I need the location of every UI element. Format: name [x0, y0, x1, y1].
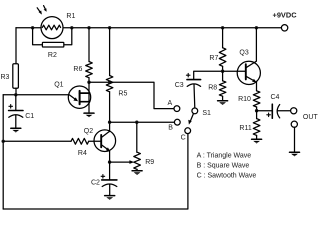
capacitor C3 top plate	[187, 79, 201, 81]
node junction left rail R4	[2, 140, 5, 143]
legend line B	[197, 162, 250, 169]
svg-text:C3: C3	[175, 82, 184, 89]
capacitor C4 curved plate	[277, 105, 280, 118]
capacitor C1 top plate	[9, 110, 23, 112]
svg-text:R3: R3	[1, 74, 10, 81]
label R9	[145, 159, 154, 166]
wire left vertical rail	[2, 95, 4, 209]
ground below C1	[11, 128, 21, 132]
label +9VDC	[273, 11, 298, 20]
wire bottom rail	[3, 134, 188, 209]
switch S1 arm arrow to C	[188, 114, 193, 125]
node junction top rail at R5	[108, 26, 111, 29]
wiper arrow of R9	[110, 160, 135, 164]
ground below R9	[132, 171, 142, 175]
svg-text:C4: C4	[271, 94, 280, 101]
wire C3 to S1 pole	[193, 84, 196, 108]
wire R8 top lead	[222, 71, 224, 81]
wire node B net	[110, 121, 175, 123]
capacitor C1 plus sign	[9, 105, 13, 109]
label node B	[168, 125, 173, 132]
wire R11 bottom lead	[256, 135, 258, 139]
wire Q1 gate net	[3, 94, 71, 96]
wire R2 left branch	[33, 28, 43, 45]
label R3	[1, 74, 10, 81]
resistor R10	[253, 91, 260, 107]
transistor Q3 emitter	[246, 76, 257, 82]
wire R6 top lead	[88, 28, 90, 62]
capacitor C1 bottom lead	[15, 115, 17, 128]
capacitor C3 curved plate	[187, 84, 200, 87]
svg-text:B : Square Wave: B : Square Wave	[197, 162, 250, 169]
node junction tap on R5	[108, 81, 111, 84]
ground below C2	[105, 196, 115, 200]
wire R10 bottom lead	[256, 107, 258, 111]
capacitor C2 curved plate	[102, 184, 117, 187]
svg-text:Q3: Q3	[239, 50, 248, 57]
label R7	[209, 55, 218, 62]
svg-text:R8: R8	[208, 84, 217, 91]
resistor R4	[71, 138, 89, 144]
label R2	[48, 52, 57, 59]
label R6	[73, 66, 82, 73]
wire Q3 emitter lead	[256, 81, 258, 90]
svg-text:B: B	[168, 125, 173, 132]
node junction top rail at R2 left	[31, 26, 34, 29]
node junction R6 Q1 drain	[87, 81, 90, 84]
transistor Q2 body	[94, 130, 116, 152]
wire R4 left	[3, 140, 71, 142]
svg-text:R11: R11	[239, 125, 251, 132]
svg-text:R1: R1	[66, 13, 75, 20]
wire R11 top lead	[256, 111, 258, 119]
wire R3 bottom lead	[15, 88, 17, 95]
transistor Q2 emitter	[101, 145, 110, 152]
capacitor C2 top plate	[102, 179, 117, 181]
label R1	[66, 13, 75, 20]
label Q3	[239, 50, 248, 57]
light arrow 2 into R1	[44, 6, 47, 12]
wire Q1 drain-source vertical	[88, 82, 90, 113]
resistor R6	[86, 62, 93, 78]
transistor Q3 collector	[246, 28, 257, 68]
switch throw contact A	[174, 106, 180, 112]
label C1	[25, 113, 34, 120]
transistor Q1 channel bar	[79, 91, 81, 104]
svg-text:OUT: OUT	[303, 114, 319, 121]
label C2	[91, 180, 100, 187]
svg-text:Q1: Q1	[54, 81, 63, 88]
ground below OUT return	[290, 152, 300, 156]
switch S1 pole contact	[192, 108, 198, 114]
svg-text:Q2: Q2	[84, 128, 93, 135]
label C4	[271, 94, 280, 101]
capacitor C3 plus sign	[186, 73, 190, 77]
node junction R7 R8 Q3 base	[221, 70, 224, 73]
wire R7 top lead	[222, 28, 224, 48]
label S1	[202, 110, 211, 117]
label R5	[118, 91, 127, 98]
light arrow 1 into R1	[37, 8, 42, 15]
wire Q2 emitter lead	[109, 151, 111, 162]
transistor Q2 collector	[101, 131, 109, 137]
node junction R9 top	[135, 121, 138, 124]
legend line C	[197, 173, 257, 180]
svg-text:R9: R9	[145, 159, 154, 166]
resistor R11	[253, 119, 260, 136]
wire node A net	[89, 82, 174, 108]
photoresistor R1	[41, 17, 63, 39]
label OUT	[303, 114, 319, 121]
wire R7 bottom lead	[222, 66, 224, 71]
resistor R3	[13, 64, 19, 88]
terminal OUT return	[291, 121, 297, 127]
node junction top rail at R6	[87, 26, 90, 29]
svg-text:R2: R2	[48, 52, 57, 59]
terminal OUT signal	[291, 108, 297, 114]
svg-text:A : Triangle Wave: A : Triangle Wave	[197, 152, 252, 159]
svg-text:A: A	[168, 100, 173, 107]
legend line A	[197, 152, 252, 159]
resistor R9	[134, 152, 141, 169]
svg-text:C2: C2	[91, 180, 100, 187]
ground below R11	[252, 139, 262, 143]
label R10	[238, 96, 251, 103]
transistor Q1 source stub	[80, 101, 89, 103]
capacitor C2 bottom lead	[109, 184, 111, 195]
wire R9 top lead	[136, 122, 138, 152]
ground below Q1	[84, 113, 94, 117]
wire C3 to R8 junction	[194, 71, 223, 79]
wire R5 bottom lead	[109, 92, 111, 132]
transistor Q1 drain stub	[80, 92, 89, 94]
resistor R5	[106, 76, 113, 92]
node junction R3 C1 gate	[14, 93, 17, 96]
label node A	[168, 100, 173, 107]
label Q2	[84, 128, 93, 135]
wire R9 bottom lead	[136, 169, 138, 170]
wire R5 top lead	[109, 28, 111, 76]
wire Q3 base	[223, 70, 246, 72]
svg-text:R6: R6	[73, 66, 82, 73]
svg-text:C : Sawtooth Wave: C : Sawtooth Wave	[197, 173, 257, 180]
wire C4 to OUT	[278, 110, 291, 112]
wire R6 bottom lead	[88, 78, 90, 83]
ground below R8	[218, 101, 228, 105]
transistor Q3 base bar	[245, 64, 247, 79]
wire OUT return to ground	[294, 127, 296, 152]
capacitor C2 top lead	[109, 162, 111, 179]
resistor R8	[219, 81, 226, 96]
label R8	[208, 84, 217, 91]
node junction Q2 emitter C2	[108, 160, 111, 163]
transistor Q1 gate arrow	[69, 95, 78, 101]
switch throw contact C	[185, 128, 191, 134]
terminal +9VDC	[281, 25, 287, 31]
transistor Q2 base bar	[100, 135, 102, 147]
wire +9V top rail	[16, 27, 281, 29]
capacitor C1 positive lead	[15, 95, 17, 110]
svg-text:S1: S1	[202, 110, 211, 117]
transistor Q3 body	[237, 61, 260, 84]
label Q1	[54, 81, 63, 88]
capacitor C4 straight plate	[271, 104, 273, 118]
node junction top rail at Q3 collector	[255, 26, 258, 29]
svg-text:R10: R10	[238, 96, 251, 103]
capacitor C4 plus sign	[267, 113, 271, 117]
node junction top rail at R2 right	[70, 26, 73, 29]
transistor Q1 body	[68, 86, 90, 108]
resistor R2	[42, 42, 63, 47]
svg-text:C1: C1	[25, 113, 34, 120]
node junction top rail at R7	[221, 26, 224, 29]
capacitor C1 curved plate	[9, 115, 23, 118]
svg-text:R4: R4	[78, 150, 87, 157]
label node C	[181, 134, 186, 141]
wire R4 to Q2 base	[89, 140, 102, 142]
svg-text:R5: R5	[118, 91, 127, 98]
resistor R7	[219, 48, 226, 67]
label R11	[239, 125, 251, 132]
label C3	[175, 82, 184, 89]
wire R8 bottom lead	[222, 96, 224, 101]
capacitor C2 plus sign	[101, 175, 105, 179]
wire left drop to R3	[15, 28, 17, 64]
label R4	[78, 150, 87, 157]
svg-text:+9VDC: +9VDC	[273, 11, 298, 20]
svg-text:C: C	[181, 134, 186, 141]
node junction R10 R11 C4	[255, 109, 258, 112]
switch throw contact B	[174, 119, 180, 125]
wire R2 right branch	[64, 28, 72, 45]
wire junction to C4	[257, 110, 272, 112]
node junction Q2 collector	[108, 121, 111, 124]
svg-text:R7: R7	[209, 55, 218, 62]
